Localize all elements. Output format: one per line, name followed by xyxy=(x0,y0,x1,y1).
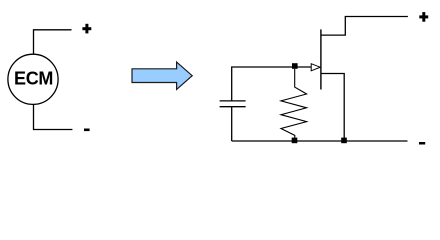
wire source lead xyxy=(322,74,345,142)
- terminal label (right) xyxy=(419,142,425,145)
wire capacitor bottom lead xyxy=(231,107,233,141)
transistor Q1 bar xyxy=(320,29,322,89)
wire drain lead xyxy=(322,17,408,36)
capacitor C1 top plate xyxy=(220,100,246,102)
- terminal label (left) xyxy=(84,129,90,132)
transistor Q1 gate arrow xyxy=(311,64,320,71)
wire gate net top rail xyxy=(232,67,312,101)
resistor R1 zigzag xyxy=(281,69,307,141)
capacitor C1 bottom plate xyxy=(220,106,246,108)
node resistor bottom junction xyxy=(292,138,298,144)
wire ECM top lead xyxy=(34,30,72,54)
block arrow (transform) xyxy=(132,62,192,89)
+ terminal label (left) xyxy=(82,24,91,34)
+ terminal label (right) xyxy=(419,12,428,22)
wire ECM bottom lead xyxy=(34,105,73,130)
wire bottom rail xyxy=(232,140,408,142)
node gate junction xyxy=(292,63,298,69)
node source junction xyxy=(341,138,347,144)
ECM source circle U1 xyxy=(8,54,58,104)
svg-text:ECM: ECM xyxy=(14,69,53,89)
